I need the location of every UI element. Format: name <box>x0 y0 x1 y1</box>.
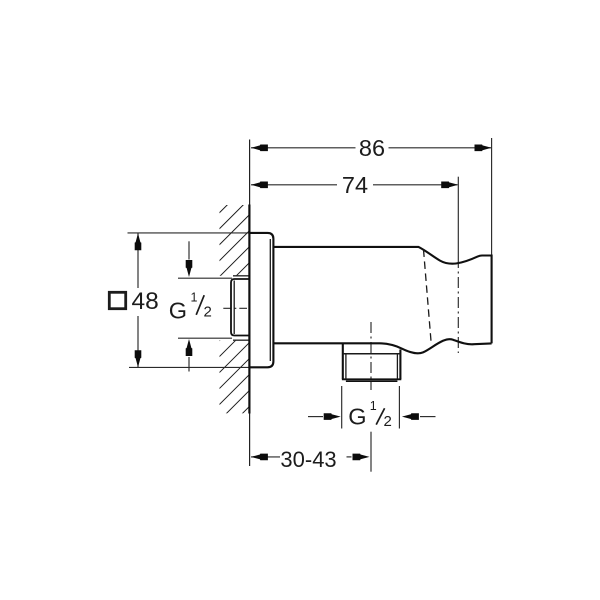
svg-text:48: 48 <box>132 288 159 315</box>
svg-text:86: 86 <box>359 135 385 161</box>
svg-text:2: 2 <box>384 413 392 430</box>
svg-text:30-43: 30-43 <box>280 447 336 472</box>
svg-text:G: G <box>348 404 366 430</box>
svg-text:1: 1 <box>191 290 198 304</box>
svg-text:G: G <box>169 297 187 323</box>
svg-text:74: 74 <box>342 172 368 198</box>
svg-text:2: 2 <box>204 303 212 320</box>
svg-text:1: 1 <box>370 399 377 413</box>
